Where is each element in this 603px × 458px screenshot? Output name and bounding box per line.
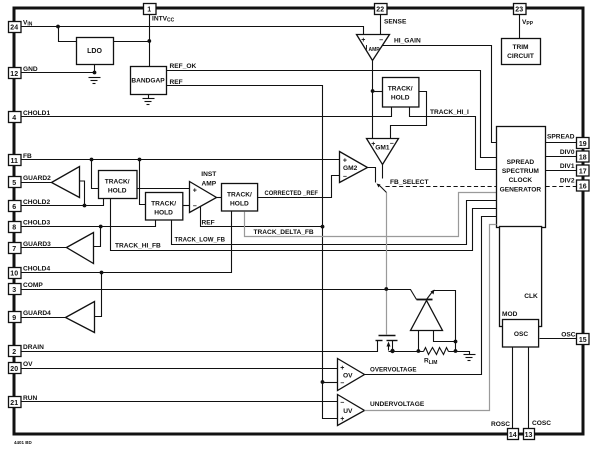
wire T1 output to inst amp plus — [137, 188, 190, 190]
track/hold T4 — [383, 78, 419, 108]
svg-text:–: – — [340, 380, 344, 387]
wire TRACK_LOW_FB from T2 to spread generator — [172, 201, 497, 245]
wire DRAIN net to MOSFET drain — [21, 341, 378, 352]
junction dot switch/COMP — [384, 287, 388, 291]
switch wiper arrow — [377, 184, 381, 188]
wire guard4 input from CHOLD4 — [95, 273, 102, 317]
pin 10 CHOLD4 — [9, 266, 51, 279]
svg-text:6: 6 — [12, 204, 16, 211]
svg-text:TRACK_DELTA_FB: TRACK_DELTA_FB — [254, 229, 314, 236]
junction dot guard2/CHOLD2 — [83, 204, 87, 208]
wire bandgap ground stub — [148, 95, 150, 99]
ground symbol below LDO — [89, 78, 101, 84]
pin 24 VIN — [9, 20, 33, 33]
pin 9 GUARD4 — [9, 310, 52, 323]
svg-text:+: + — [193, 188, 197, 195]
pin 6 CHOLD2 — [9, 199, 51, 212]
pin 14 ROSC — [508, 429, 519, 440]
svg-text:GENERATOR: GENERATOR — [500, 186, 542, 193]
junction dot VIN/LDO — [56, 25, 60, 29]
svg-text:10: 10 — [10, 271, 18, 278]
svg-text:–: – — [343, 174, 347, 181]
svg-text:CHOLD2: CHOLD2 — [23, 199, 50, 206]
wire GM2 output stub — [368, 168, 376, 183]
svg-text:3: 3 — [12, 287, 16, 294]
svg-text:TRACK_HI_I: TRACK_HI_I — [430, 109, 469, 116]
svg-text:TRACK/: TRACK/ — [151, 200, 176, 207]
svg-text:AMP: AMP — [201, 180, 216, 187]
resistor RLIM — [424, 348, 449, 355]
wire REF branch to inst amp ref pin — [201, 207, 323, 227]
ground symbol below bandgap — [143, 99, 155, 105]
junction dot clamp node on RLIM row — [454, 349, 458, 353]
svg-text:SENSE: SENSE — [384, 19, 407, 26]
svg-text:VIN: VIN — [23, 20, 33, 28]
svg-text:FB_SELECT: FB_SELECT — [390, 179, 428, 186]
svg-text:BANDGAP: BANDGAP — [131, 78, 165, 85]
svg-text:1: 1 — [147, 7, 151, 14]
svg-text:16: 16 — [579, 184, 587, 191]
block SPREAD SPECTRUM CLOCK GENERATOR — [497, 127, 546, 228]
wire RLIM row — [389, 351, 424, 353]
svg-text:COSC: COSC — [532, 420, 551, 427]
pin 7 GUARD3 — [9, 241, 52, 254]
wire row to ground — [449, 352, 470, 355]
ground symbol RLIM — [464, 355, 476, 361]
svg-text:CLK: CLK — [524, 293, 538, 300]
svg-text:TRIM: TRIM — [512, 44, 529, 51]
svg-text:24: 24 — [10, 25, 18, 32]
wire GND net — [21, 72, 95, 74]
pin 8 CHOLD3 — [9, 220, 51, 233]
svg-text:DIV0: DIV0 — [560, 149, 575, 156]
transistor Q1 base bar — [417, 299, 433, 301]
block BANDGAP U-bandgap — [131, 67, 167, 95]
pin 15 OSC — [577, 334, 590, 345]
wire LDO output to INTVCC — [114, 41, 150, 43]
junction dot clamp node upper — [454, 340, 458, 344]
wire DIV0 output to pin18 — [546, 156, 577, 158]
wire VIN net — [21, 27, 364, 35]
wire CHOLD3 net to T2 bottom — [21, 221, 156, 227]
wire guard3 input from CHOLD3 — [94, 227, 101, 247]
junction dot M1 source/row — [390, 349, 394, 353]
wire REF net from bandgap down left column — [167, 86, 338, 419]
svg-text:4401 BD: 4401 BD — [14, 440, 33, 445]
svg-text:UNDERVOLTAGE: UNDERVOLTAGE — [370, 401, 425, 408]
wire COMP net to clamp transistor base — [21, 290, 417, 300]
wire VPP pin23 to trim circuit — [519, 15, 521, 39]
svg-text:CIRCUIT: CIRCUIT — [507, 53, 534, 60]
block CLK modulator — [500, 227, 542, 327]
svg-text:TRACK_LOW_FB: TRACK_LOW_FB — [175, 237, 226, 244]
wire LDO input tap — [59, 27, 77, 42]
svg-text:GUARD3: GUARD3 — [23, 241, 51, 248]
wire guard2 input from CHOLD2 — [80, 181, 85, 206]
wire OV pin to comparator plus — [21, 368, 338, 370]
svg-text:+: + — [343, 157, 347, 164]
wire RUN pin to comparator minus — [21, 401, 338, 403]
wire INTVCC vertical pin1 to bandgap — [149, 15, 151, 67]
junction dot LDO/INTVCC — [147, 39, 151, 43]
transistor Q1 emitter diagonal with arrow — [427, 292, 433, 300]
junction dot FB/T1 — [90, 158, 94, 162]
junction dot REF/OV — [321, 380, 325, 384]
comparator UV — [338, 395, 365, 426]
svg-text:VPP: VPP — [522, 19, 534, 27]
svg-text:SPECTRUM: SPECTRUM — [502, 168, 540, 175]
wire T4 input — [373, 91, 383, 93]
svg-text:GUARD4: GUARD4 — [23, 310, 51, 317]
wire OSC output to pin15 — [540, 338, 577, 340]
wire TRACK_HI_FB from T1 to spread generator — [111, 199, 497, 251]
svg-text:INST: INST — [201, 171, 216, 178]
wire GM1 output stub — [382, 165, 384, 179]
wire FB_SELECT dashed — [386, 186, 497, 188]
buffer GUARD3 amp — [67, 233, 94, 264]
wire Q1 emitter lead to RLIM node — [434, 291, 456, 352]
wire GUARD4 pin to amp apex — [21, 317, 66, 319]
svg-text:–: – — [379, 37, 383, 44]
svg-text:OV: OV — [23, 361, 33, 368]
svg-text:AMP: AMP — [369, 47, 381, 53]
wire CORRECTED_REF to GM2 minus — [258, 176, 340, 198]
pin 16 DIV2 — [577, 180, 590, 191]
svg-text:7: 7 — [12, 246, 16, 253]
wire COSC — [528, 347, 530, 429]
wire T4 output staircase to GM1 minus — [391, 92, 427, 139]
svg-text:ROSC: ROSC — [491, 421, 510, 428]
wire FB to T1 input — [92, 160, 99, 189]
svg-text:5: 5 — [12, 180, 16, 187]
svg-text:8: 8 — [12, 225, 16, 232]
wire I_AMP output down to GM1 plus — [372, 61, 374, 139]
svg-text:MOD: MOD — [502, 311, 518, 318]
svg-text:INTVCC: INTVCC — [152, 16, 175, 24]
svg-text:15: 15 — [579, 337, 587, 344]
buffer GUARD4 amp — [66, 302, 95, 333]
svg-text:CORRECTED _REF: CORRECTED _REF — [265, 190, 319, 197]
svg-text:RUN: RUN — [23, 395, 38, 402]
svg-text:18: 18 — [579, 155, 587, 162]
wire DIV1 output to pin17 — [546, 170, 577, 172]
wire GUARD2 pin to amp apex — [21, 182, 52, 184]
wire GUARD3 pin to amp apex — [21, 247, 67, 249]
svg-text:SPREAD: SPREAD — [547, 133, 575, 140]
svg-text:COMP: COMP — [23, 282, 43, 289]
pin 1 INTVCC — [144, 4, 175, 24]
svg-text:2: 2 — [12, 349, 16, 356]
svg-text:GM2: GM2 — [343, 165, 358, 172]
svg-text:CLOCK: CLOCK — [509, 177, 533, 184]
pin 4 CHOLD1 — [9, 110, 51, 123]
svg-text:REF: REF — [170, 79, 183, 86]
svg-text:+: + — [340, 365, 344, 372]
wire inst amp output to T3 — [217, 197, 222, 199]
junction dot guard3/CHOLD3 — [99, 225, 103, 229]
svg-text:+: + — [361, 37, 365, 44]
svg-text:CHOLD1: CHOLD1 — [23, 110, 50, 117]
svg-text:9: 9 — [12, 315, 16, 322]
junction dot LDO/GND — [93, 71, 97, 75]
svg-text:19: 19 — [579, 141, 587, 148]
junction dot REF/instamp — [321, 225, 325, 229]
wire LDO ground — [94, 65, 96, 73]
svg-text:UV: UV — [343, 408, 353, 415]
wire CHOLD1 net to track/hold T4 — [21, 107, 392, 117]
svg-text:11: 11 — [10, 158, 18, 165]
svg-text:+: + — [340, 416, 344, 423]
transistor M1 gate bar — [379, 335, 396, 337]
svg-text:OV: OV — [343, 373, 353, 380]
comparator OV — [338, 359, 365, 391]
svg-text:SPREAD: SPREAD — [507, 159, 535, 166]
M1 source stub — [392, 341, 394, 352]
svg-text:DIV2: DIV2 — [560, 178, 575, 185]
svg-text:OSC: OSC — [514, 331, 529, 338]
pin 23 VPP — [514, 4, 534, 28]
svg-text:GM1: GM1 — [375, 144, 390, 151]
wire switch output gray down to COMP and gate — [386, 193, 388, 335]
wire CHOLD2 net to T1 bottom — [21, 199, 104, 206]
svg-text:REF: REF — [202, 220, 215, 227]
op-amp INST AMP — [190, 182, 217, 213]
svg-text:FB: FB — [23, 153, 32, 160]
op-amp GM1 — [367, 139, 399, 165]
wire diode right stub to clamp node — [434, 331, 456, 342]
wire TRACK_DELTA_FB gray from T3 to spread generator — [245, 193, 497, 237]
junction dot FB/T2 — [138, 158, 142, 162]
svg-text:HOLD: HOLD — [391, 95, 410, 102]
pin 12 GND — [9, 66, 38, 79]
transistor M1 channel left segment — [376, 340, 383, 342]
regulator LDO — [77, 38, 114, 65]
svg-text:–: – — [193, 203, 197, 210]
block OSC — [503, 320, 539, 348]
track/hold T2 — [146, 193, 183, 221]
svg-text:CHOLD3: CHOLD3 — [23, 220, 50, 227]
wire HI_GAIN net to spread generator — [383, 46, 497, 143]
svg-text:OSC: OSC — [561, 331, 576, 338]
svg-text:GND: GND — [23, 66, 38, 73]
buffer GUARD2 amp — [52, 167, 80, 198]
op-amp I_AMP current amp — [357, 35, 390, 61]
block TRIM CIRCUIT — [502, 39, 541, 65]
pin 3 COMP — [9, 282, 44, 295]
svg-text:GUARD2: GUARD2 — [23, 175, 51, 182]
junction dot guard4/CHOLD4 — [100, 271, 104, 275]
svg-text:HI_GAIN: HI_GAIN — [394, 38, 421, 45]
svg-text:DIV1: DIV1 — [560, 163, 575, 170]
svg-text:HOLD: HOLD — [154, 209, 173, 216]
svg-text:23: 23 — [515, 7, 523, 14]
svg-text:TRACK/: TRACK/ — [388, 86, 413, 93]
pin 18 DIV0 — [577, 151, 590, 162]
svg-text:TRACK/: TRACK/ — [227, 192, 252, 199]
svg-text:4: 4 — [12, 115, 16, 122]
wire REF branch to OV minus input — [323, 382, 338, 384]
track/hold T3 — [222, 184, 258, 212]
M1 body arrow — [388, 345, 390, 351]
pin 5 GUARD2 — [9, 175, 52, 188]
svg-text:LDO: LDO — [87, 48, 102, 55]
pin 2 DRAIN — [9, 344, 45, 357]
pin 11 FB — [9, 153, 33, 166]
wire TRACK_HI_I net to spread generator — [410, 107, 497, 170]
wire diode left stub to row — [418, 331, 420, 352]
svg-text:22: 22 — [376, 7, 384, 14]
wire OVERVOLTAGE output to spread generator — [365, 217, 497, 375]
pin 20 OV — [9, 361, 34, 374]
pin 19 SPREAD — [577, 138, 590, 149]
svg-text:12: 12 — [10, 71, 18, 78]
wire SPREAD output to pin19 — [546, 142, 577, 144]
wire CHOLD4 net to T3 bottom stub — [21, 212, 232, 273]
svg-text:13: 13 — [525, 432, 533, 439]
track/hold T1 — [99, 171, 138, 199]
pin 22 SENSE — [375, 4, 407, 26]
svg-text:TRACK_HI_FB: TRACK_HI_FB — [115, 243, 161, 250]
pin 13 COSC — [524, 429, 535, 440]
svg-text:20: 20 — [10, 366, 18, 373]
transistor M1 channel right segment — [387, 340, 398, 342]
wire REF_OK net to spread spectrum generator — [167, 71, 497, 158]
svg-text:17: 17 — [579, 169, 587, 176]
wire FB net to GM2 plus — [21, 159, 340, 161]
wire T2 output to inst amp minus — [183, 205, 190, 207]
svg-text:14: 14 — [509, 432, 517, 439]
wire DIV2 dashed output to pin16 — [546, 186, 577, 188]
svg-text:CHOLD4: CHOLD4 — [23, 266, 50, 273]
svg-text:OVERVOLTAGE: OVERVOLTAGE — [370, 366, 417, 373]
wire ROSC — [512, 347, 514, 429]
svg-text:DRAIN: DRAIN — [23, 344, 44, 351]
op-amp GM2 — [340, 152, 368, 183]
pin 17 DIV1 — [577, 165, 590, 176]
svg-text:HOLD: HOLD — [108, 188, 127, 195]
pin 21 RUN — [9, 395, 38, 408]
svg-text:I: I — [366, 45, 368, 52]
svg-text:21: 21 — [10, 400, 18, 407]
svg-text:–: – — [390, 140, 394, 147]
diode clamp triangle — [411, 301, 443, 331]
wire SENSE pin22 to I_AMP — [380, 15, 382, 35]
svg-text:–: – — [340, 399, 344, 406]
junction dot diode/row — [417, 349, 421, 353]
wire UNDERVOLTAGE gray output to spread generator — [365, 225, 497, 411]
svg-text:TRACK/: TRACK/ — [105, 179, 130, 186]
svg-text:REF_OK: REF_OK — [170, 63, 197, 70]
wire FB to T2 input — [140, 160, 146, 205]
junction dot I_AMP out / T4 input — [371, 89, 375, 93]
svg-text:HOLD: HOLD — [230, 201, 249, 208]
